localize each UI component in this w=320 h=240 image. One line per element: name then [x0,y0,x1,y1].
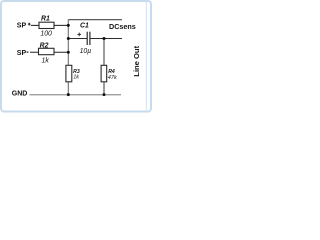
svg-text:C1: C1 [80,23,89,30]
svg-text:SP: SP [17,22,27,29]
svg-text:1k: 1k [42,57,50,64]
svg-text:100: 100 [40,31,52,38]
svg-text:R2: R2 [40,43,49,50]
svg-text:SP: SP [17,50,27,57]
svg-text:R1: R1 [41,15,50,22]
svg-text:DCsens: DCsens [109,22,136,31]
svg-text:47k: 47k [108,75,118,81]
svg-text:Line Out: Line Out [132,45,141,76]
svg-text:10µ: 10µ [80,48,92,55]
svg-text:GND: GND [12,91,28,98]
